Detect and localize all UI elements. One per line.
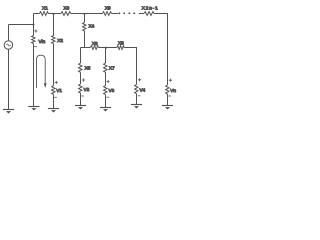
minus sign (Vin) bbox=[34, 46, 37, 48]
wire: node down to X4 bbox=[84, 14, 86, 23]
minus sign (V4) bbox=[138, 95, 141, 97]
wire: before X2n-1 bbox=[139, 13, 144, 15]
svg-text:V3: V3 bbox=[109, 88, 115, 93]
wire: node to X8 bbox=[106, 47, 117, 49]
wire: V4 down to ground bbox=[136, 94, 138, 105]
svg-text:V4: V4 bbox=[140, 87, 146, 92]
ground: V4 branch bbox=[131, 104, 142, 106]
resistor X2n-1 bbox=[144, 12, 154, 16]
svg-text:X7: X7 bbox=[109, 66, 115, 71]
resistor X2 bbox=[52, 36, 55, 44]
resistor X4 bbox=[83, 22, 86, 31]
svg-text:Vin: Vin bbox=[39, 39, 46, 44]
svg-text:V1: V1 bbox=[56, 88, 62, 93]
wire: X4 down to rail2 corner with jog to X5 bbox=[81, 31, 85, 48]
node: X6/X8/X7-branch junction bbox=[105, 47, 107, 49]
resistor X7 bbox=[104, 63, 107, 72]
wire: X6 to node bbox=[99, 47, 106, 49]
resistor V3 (output) bbox=[104, 86, 107, 95]
resistor V1 (output) bbox=[52, 86, 55, 95]
resistor Vin (input voltage) bbox=[32, 36, 35, 44]
svg-text:X4: X4 bbox=[89, 24, 95, 29]
wire: X1 to node bbox=[48, 13, 53, 15]
ellipsis dots on top rail bbox=[118, 12, 135, 14]
wire: top rail to X1 bbox=[34, 13, 40, 15]
resistor X8 bbox=[117, 46, 124, 50]
svg-text:V2: V2 bbox=[84, 87, 90, 92]
minus sign (V3) bbox=[106, 96, 109, 98]
AC source circle bbox=[4, 41, 13, 50]
minus sign (Vn) bbox=[168, 95, 171, 97]
resistor X5 bbox=[79, 63, 82, 72]
node: X3/X9/X4-branch junction bbox=[83, 13, 85, 15]
wire: source to ground bbox=[8, 49, 10, 109]
AC source lead bbox=[8, 25, 10, 41]
plus sign (Vn) bbox=[169, 79, 172, 82]
wire: X3 to node bbox=[71, 13, 85, 15]
svg-text:X3: X3 bbox=[64, 5, 70, 10]
plus sign (Vin) bbox=[34, 29, 37, 32]
wire: rail2 from X5 node to X6 bbox=[81, 47, 91, 49]
svg-text:X2n-1: X2n-1 bbox=[142, 6, 159, 11]
wire: Vin resistor down to ground bbox=[33, 44, 35, 107]
node: Vin top node bbox=[33, 24, 35, 26]
wire: Vn down to ground bbox=[167, 94, 169, 105]
plus sign (V3) bbox=[107, 80, 110, 83]
wire: X2n-1 to top-right corner, down right side bbox=[154, 14, 168, 86]
wire: top-left horizontal from source to Vin node bbox=[9, 24, 34, 26]
minus sign (V1) bbox=[54, 96, 57, 98]
ground: Vin branch bbox=[28, 106, 39, 108]
svg-text:X6: X6 bbox=[92, 41, 98, 46]
wire: node down to X2 bbox=[53, 14, 55, 36]
plus sign (V1) bbox=[55, 81, 58, 84]
wire: X7 branch top bbox=[105, 48, 107, 64]
resistor X6 bbox=[90, 46, 98, 50]
resistor X1 bbox=[40, 12, 49, 16]
svg-text:X2: X2 bbox=[57, 38, 63, 43]
wire: X5 branch top bbox=[80, 48, 82, 64]
AC source sine squiggle bbox=[6, 44, 10, 46]
svg-text:Vn: Vn bbox=[170, 88, 176, 93]
wire: X8 to rail2 right corner, down to V4 bbox=[124, 48, 136, 85]
wire: X7 down to V3 bbox=[105, 72, 107, 85]
resistor V2 (output) bbox=[79, 84, 82, 93]
plus sign (V4) bbox=[138, 78, 141, 81]
ground: V3 branch bbox=[100, 107, 111, 109]
ground: V2 branch bbox=[75, 105, 86, 107]
resistor X3 bbox=[61, 12, 71, 16]
resistor Vn (output) bbox=[166, 85, 169, 94]
svg-text:X1: X1 bbox=[42, 5, 48, 10]
arrowhead of current loop bbox=[44, 83, 47, 88]
ground: Vn branch bbox=[162, 105, 173, 107]
plus sign (V2) bbox=[82, 78, 85, 81]
ground: V1 branch bbox=[48, 108, 59, 110]
ground: source branch bbox=[3, 109, 14, 111]
wire: riser from node up to top rail bbox=[33, 14, 35, 25]
wire: node to X9 bbox=[85, 13, 103, 15]
node: X1/X3/X2-branch junction bbox=[52, 13, 54, 15]
svg-text:X9: X9 bbox=[105, 5, 111, 10]
svg-text:X5: X5 bbox=[85, 66, 91, 71]
wire: V3 down to ground bbox=[105, 94, 107, 107]
wire: X5 down to V2 bbox=[80, 72, 82, 84]
wire: node down to Vin resistor bbox=[33, 25, 35, 36]
minus sign (V2) bbox=[81, 95, 84, 97]
wire: X2 down to V1 bbox=[53, 44, 55, 86]
wire: node to X3 bbox=[54, 13, 61, 15]
svg-text:X8: X8 bbox=[118, 40, 124, 45]
wire: V1 down to ground bbox=[53, 94, 55, 108]
wire: V2 down to ground bbox=[80, 93, 82, 105]
resistor V4 (output) bbox=[135, 84, 138, 93]
wire: after X9 bbox=[112, 13, 119, 15]
resistor X9 bbox=[103, 12, 112, 16]
current loop arrow bbox=[37, 55, 46, 88]
